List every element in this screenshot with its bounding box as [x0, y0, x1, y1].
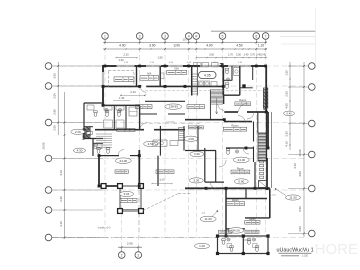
svg-text:Room: Room — [232, 123, 239, 127]
svg-text:Room: Room — [237, 166, 244, 170]
svg-text:5.50: 5.50 — [298, 206, 302, 212]
svg-text:HORE: HORE — [315, 241, 358, 258]
svg-text:5: 5 — [222, 34, 224, 38]
svg-text:nnutfiu +0.0: nnutfiu +0.0 — [98, 226, 111, 229]
svg-text:11.00: 11.00 — [205, 217, 213, 221]
svg-text:4.50: 4.50 — [285, 103, 289, 109]
svg-text:20.00: 20.00 — [298, 149, 302, 156]
svg-text:2.00: 2.00 — [298, 226, 302, 232]
svg-text:24.00: 24.00 — [120, 159, 128, 163]
svg-text:4.00: 4.00 — [188, 137, 194, 141]
svg-text:20.00: 20.00 — [42, 142, 46, 149]
svg-text:2: 2 — [139, 34, 141, 38]
svg-text:138.95: 138.95 — [169, 105, 179, 109]
svg-text:34.26: 34.26 — [232, 229, 240, 233]
svg-text:4.00: 4.00 — [119, 44, 126, 48]
svg-text:2: 2 — [137, 253, 139, 257]
svg-text:3.26: 3.26 — [194, 152, 200, 156]
svg-text:1.30: 1.30 — [119, 96, 125, 100]
svg-text:6: 6 — [255, 34, 257, 38]
svg-text:2.80: 2.80 — [53, 109, 57, 115]
svg-text:11.00: 11.00 — [289, 196, 297, 200]
svg-text:uUaucWucVu 1: uUaucWucVu 1 — [277, 247, 314, 253]
svg-text:1': 1' — [120, 253, 123, 257]
svg-text:4': 4' — [195, 34, 198, 38]
svg-text:1:100: 1:100 — [302, 255, 309, 258]
svg-text:4.10: 4.10 — [293, 163, 297, 169]
svg-text:1.70: 1.70 — [228, 54, 233, 57]
svg-text:2.00x0.80: 2.00x0.80 — [166, 122, 176, 124]
svg-text:3.10: 3.10 — [59, 221, 63, 227]
svg-text:3.30: 3.30 — [285, 131, 289, 137]
svg-text:1.10: 1.10 — [258, 44, 265, 48]
svg-text:4.50: 4.50 — [236, 44, 243, 48]
svg-text:0.40: 0.40 — [286, 112, 292, 116]
svg-text:3.50: 3.50 — [159, 177, 165, 181]
svg-text:3.00: 3.00 — [209, 54, 214, 57]
svg-text:4.10: 4.10 — [59, 170, 63, 176]
svg-text:24.00: 24.00 — [238, 158, 246, 162]
svg-text:2.40: 2.40 — [59, 196, 63, 202]
svg-text:2.00: 2.00 — [53, 93, 57, 99]
svg-text:3.00: 3.00 — [149, 44, 156, 48]
svg-text:4.30: 4.30 — [77, 149, 83, 153]
svg-text:2.60: 2.60 — [127, 242, 133, 246]
svg-text:0.70: 0.70 — [250, 54, 255, 57]
svg-text:Room: Room — [249, 217, 256, 221]
svg-text:1.30: 1.30 — [118, 58, 124, 62]
svg-text:2.00: 2.00 — [53, 125, 57, 131]
svg-text:3: 3 — [164, 34, 166, 38]
svg-text:9.04: 9.04 — [124, 192, 130, 196]
svg-text:1.00: 1.00 — [199, 244, 205, 248]
svg-text:0.90: 0.90 — [238, 180, 244, 184]
svg-text:4.00: 4.00 — [298, 171, 302, 177]
svg-text:1: 1 — [104, 34, 106, 38]
svg-text:1.50: 1.50 — [157, 55, 163, 59]
svg-text:4.10: 4.10 — [285, 141, 289, 147]
svg-text:1.50: 1.50 — [285, 70, 289, 76]
svg-text:Room: Room — [239, 98, 246, 102]
svg-text:2.10: 2.10 — [130, 90, 136, 94]
svg-text:4.00: 4.00 — [206, 44, 213, 48]
svg-text:N/A: N/A — [147, 72, 152, 76]
svg-text:3.50: 3.50 — [53, 73, 57, 79]
svg-text:2.20: 2.20 — [75, 130, 81, 134]
svg-text:1.40: 1.40 — [244, 54, 249, 57]
svg-text:0.45: 0.45 — [261, 54, 266, 57]
svg-text:4.35: 4.35 — [204, 73, 211, 77]
svg-text:3.00: 3.00 — [174, 44, 181, 48]
svg-text:2.10: 2.10 — [123, 53, 129, 57]
svg-text:2.50: 2.50 — [285, 91, 289, 97]
svg-text:3.26: 3.26 — [193, 179, 199, 183]
svg-text:2.00: 2.00 — [236, 54, 241, 57]
svg-text:10.70: 10.70 — [183, 37, 190, 41]
svg-text:Room: Room — [232, 198, 239, 202]
svg-text:7: 7 — [265, 34, 267, 38]
svg-text:N/A: N/A — [175, 67, 180, 71]
